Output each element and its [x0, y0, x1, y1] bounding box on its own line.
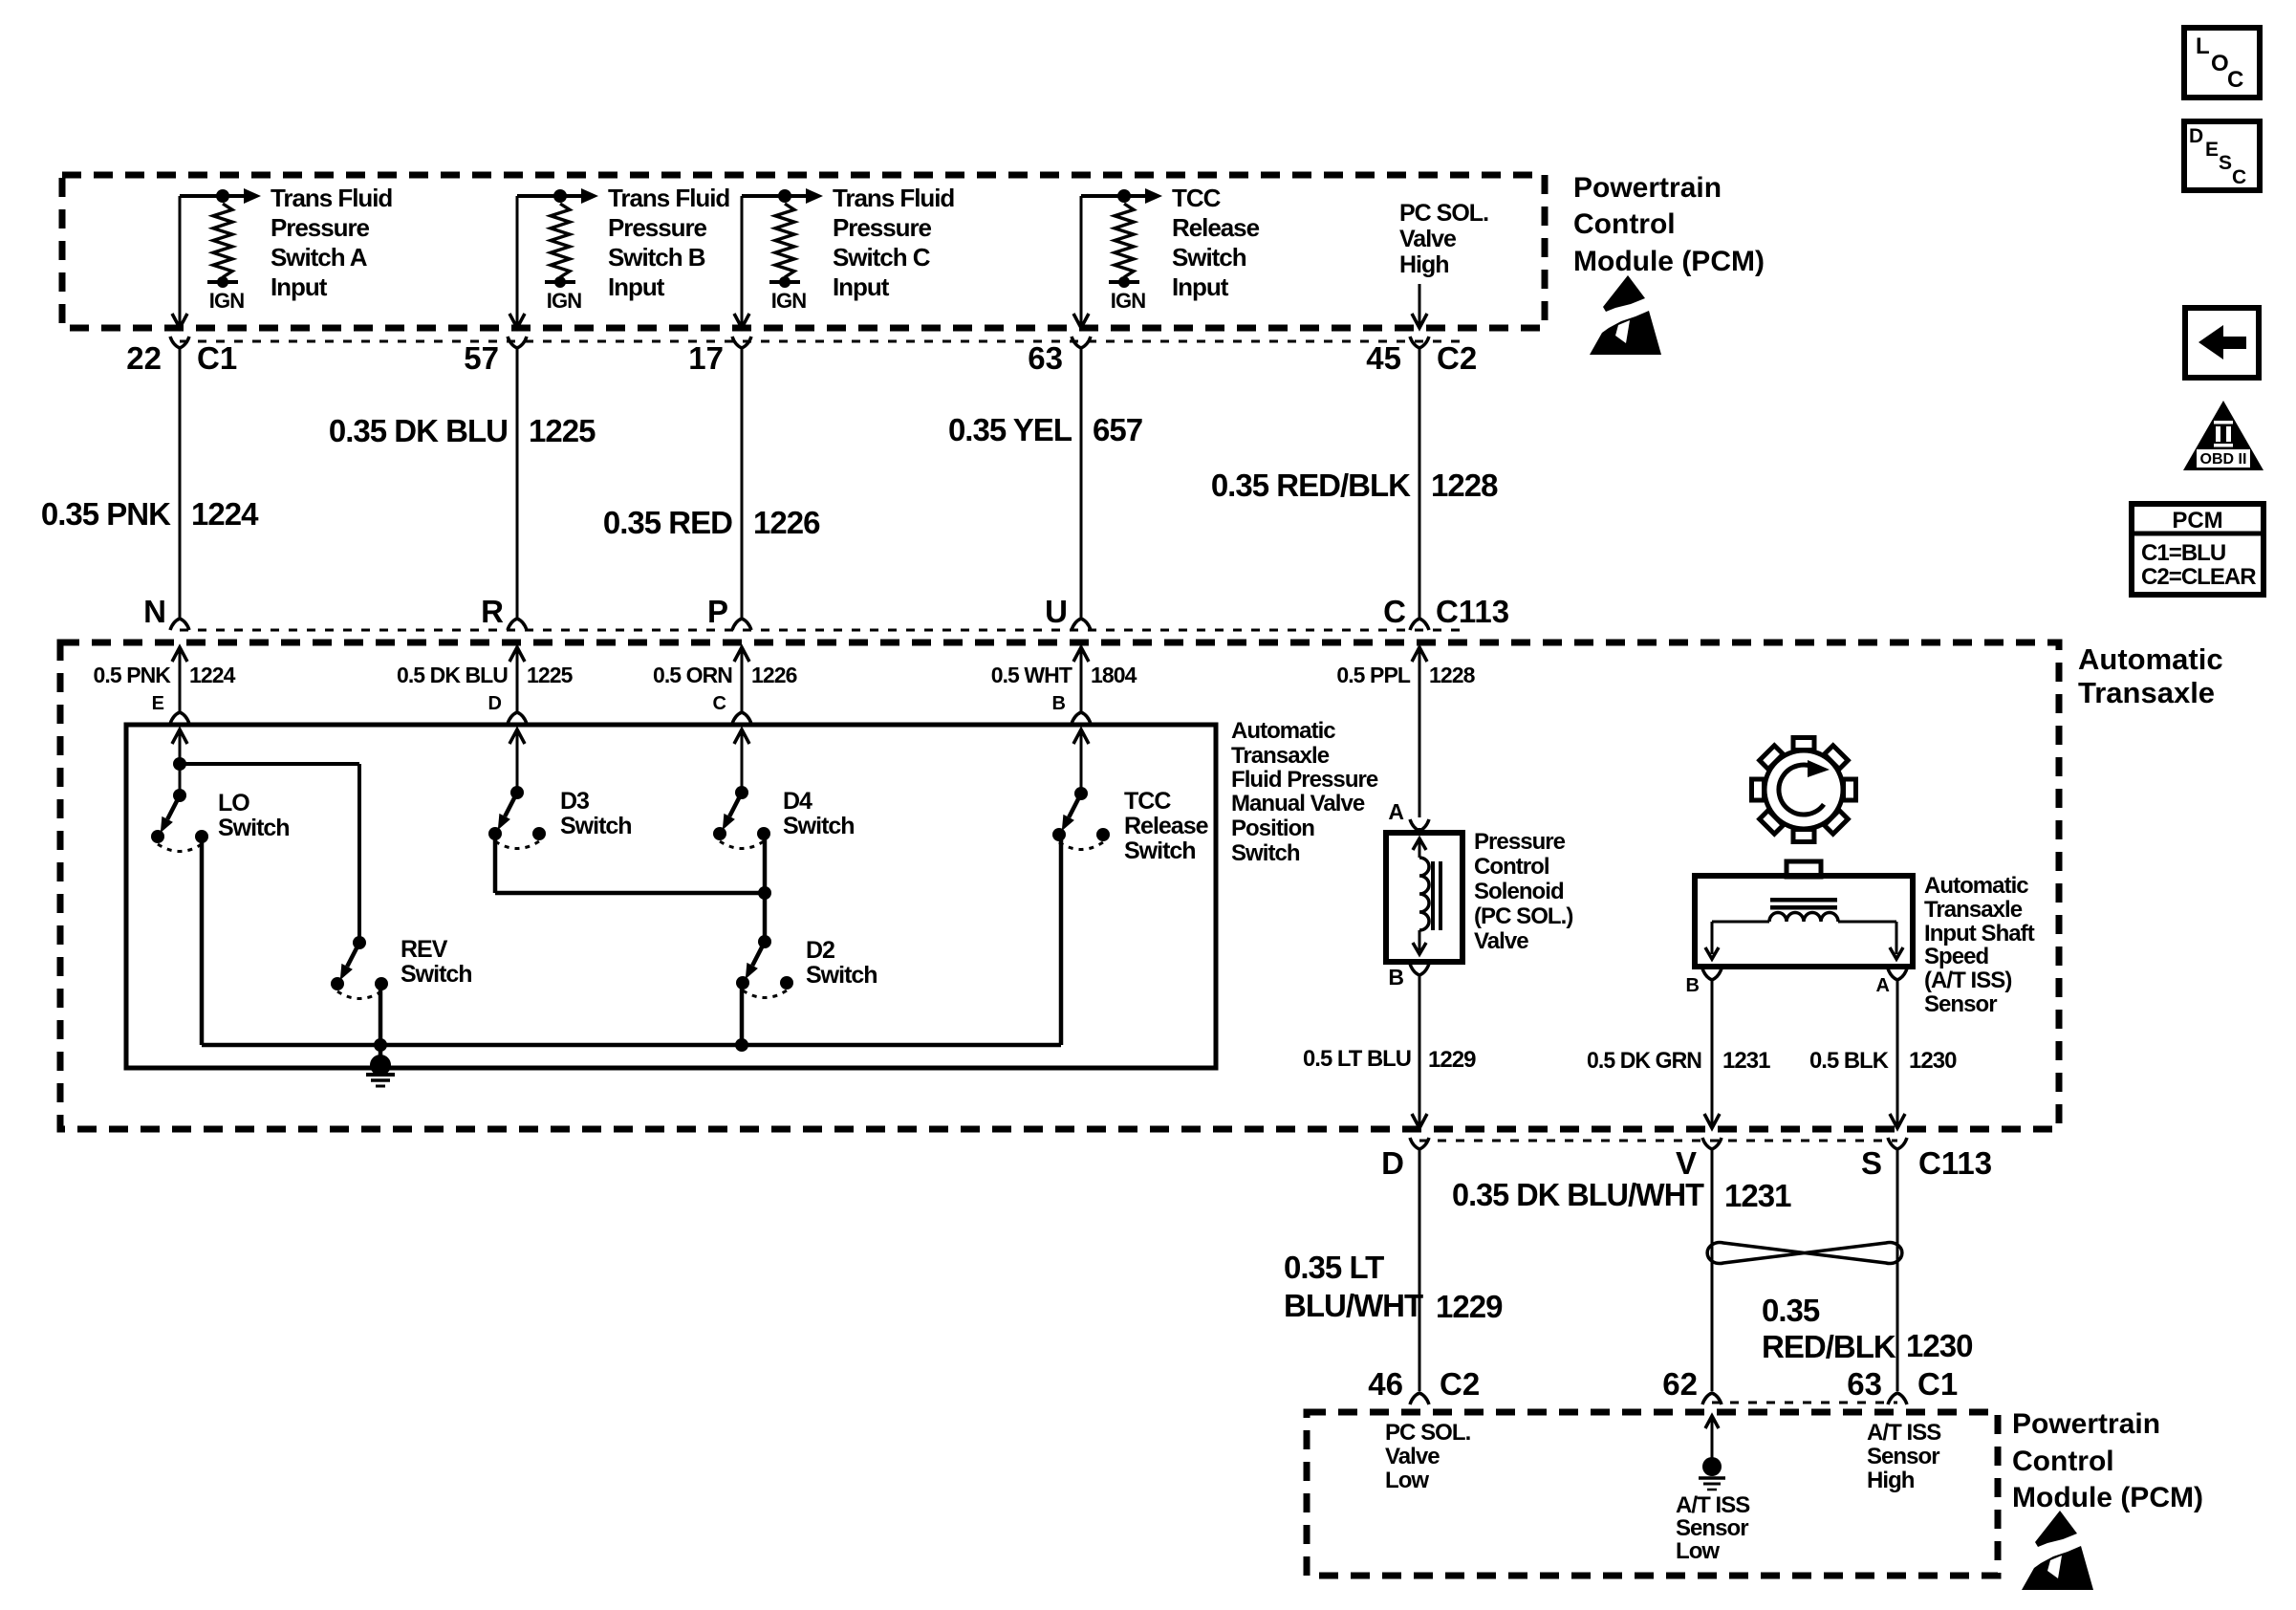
label: 0.35 RED 1226	[603, 505, 820, 540]
svg-text:Module (PCM): Module (PCM)	[1573, 246, 1765, 277]
label: 0.35 DK BLU/WHT 1231	[1452, 1177, 1791, 1213]
pin A (ISS)	[1876, 968, 1907, 996]
label: Trans Fluid Pressure Switch A Input	[271, 184, 392, 301]
connector C113 pin D (lower, fork)	[1381, 1138, 1429, 1181]
svg-text:Fluid Pressure: Fluid Pressure	[1231, 767, 1378, 793]
svg-text:TCC: TCC	[1172, 184, 1222, 212]
icon: LOC box	[2184, 28, 2260, 98]
svg-text:Low: Low	[1676, 1538, 1720, 1564]
svg-text:Transaxle: Transaxle	[1924, 897, 2023, 923]
svg-text:22: 22	[126, 340, 162, 376]
wire: REV right contact to ground	[379, 985, 383, 1065]
wire: PCM internal drop at x=776	[734, 196, 749, 328]
connector pin 22 C1 (PCM side fork)	[126, 337, 237, 376]
svg-text:Input Shaft: Input Shaft	[1924, 921, 2035, 946]
label: 0.35 RED/BLK 1228	[1211, 468, 1498, 503]
svg-text:0.35 LT: 0.35 LT	[1284, 1250, 1384, 1285]
pin C (switch side fork)	[713, 693, 751, 724]
svg-text:C2: C2	[1437, 340, 1477, 376]
svg-text:Control: Control	[2012, 1446, 2114, 1477]
svg-text:C: C	[1383, 594, 1406, 629]
node: junction LO/REV feed	[173, 757, 186, 771]
wire 1228 (0.35 RED/BLK) PCM to C113	[1419, 348, 1421, 619]
wire: LO right contact to bus	[200, 837, 205, 1045]
label: A/T ISS Sensor High	[1867, 1420, 1941, 1493]
svg-text:(PC SOL.): (PC SOL.)	[1474, 903, 1572, 929]
icon: OBD II triangle	[2183, 401, 2264, 470]
wire 1229 (0.35 LT BLU/WHT) to PCM 46	[1419, 1149, 1421, 1391]
svg-text:D: D	[2189, 125, 2203, 147]
svg-text:A/T ISS: A/T ISS	[1867, 1420, 1941, 1446]
switch TCC Release	[1052, 787, 1209, 864]
label: Automatic Transaxle Fluid Pressure Manual Valve Position Switch	[1231, 718, 1378, 866]
svg-text:Release: Release	[1124, 813, 1209, 839]
svg-text:C1: C1	[197, 340, 237, 376]
svg-text:TCC: TCC	[1124, 788, 1171, 815]
svg-text:Switch: Switch	[218, 815, 290, 841]
svg-text:Pressure: Pressure	[833, 213, 932, 242]
svg-text:C: C	[2227, 67, 2243, 93]
wire: PCM internal drop at x=188	[172, 196, 187, 328]
icon: back arrow box	[2185, 308, 2259, 378]
resistor R2 (IGN pull-up for Trans Fluid Switch B)	[517, 189, 581, 313]
label: Powertrain Control Module (PCM) (top right)	[1573, 172, 1765, 277]
svg-text:1229: 1229	[1436, 1289, 1503, 1324]
svg-text:0.5 DK GRN: 0.5 DK GRN	[1587, 1048, 1701, 1074]
svg-text:B: B	[1388, 965, 1404, 990]
svg-text:High: High	[1399, 251, 1449, 278]
resistor R1 (IGN pull-up for Trans Fluid Switch A)	[180, 189, 244, 313]
svg-text:C113: C113	[1918, 1145, 1992, 1181]
svg-text:Low: Low	[1385, 1468, 1429, 1493]
wire: internal stem at x=541	[509, 729, 525, 793]
svg-text:Switch: Switch	[560, 813, 632, 839]
svg-text:REV: REV	[401, 936, 448, 963]
svg-text:1229: 1229	[1428, 1047, 1476, 1073]
switch LO	[151, 789, 290, 852]
connector pin 63 (PCM side fork)	[1028, 337, 1091, 376]
label: TCC Release Switch Input	[1172, 184, 1260, 301]
svg-text:(A/T ISS): (A/T ISS)	[1924, 968, 2011, 993]
resistor R3 (IGN pull-up for Trans Fluid Switch C)	[742, 189, 806, 313]
svg-text:1231: 1231	[1724, 1178, 1791, 1213]
svg-text:IGN: IGN	[547, 289, 581, 313]
connector pin 17 (PCM side fork)	[688, 337, 751, 376]
connector line C113 upper (fine dashed)	[180, 629, 1462, 632]
icon: DESC box	[2184, 121, 2260, 190]
connector C113 pin S (lower, fork)	[1861, 1138, 1907, 1181]
label: 0.5 PNK 1224	[94, 663, 236, 687]
svg-text:Switch: Switch	[401, 961, 472, 988]
wire 1225 (0.35 DK BLU) PCM to C113	[516, 348, 519, 619]
svg-text:S: S	[1861, 1145, 1882, 1181]
svg-text:Switch: Switch	[1231, 840, 1300, 866]
wire 1231 (0.5 DK GRN) ISS B down	[1704, 980, 1720, 1128]
connector pin 63 C1	[1847, 1366, 1958, 1404]
svg-text:Sensor: Sensor	[1924, 991, 1997, 1017]
connector pin 46 C2	[1368, 1366, 1480, 1404]
wire 1226 (0.35 RED) PCM to C113	[741, 348, 744, 619]
ground (A/T ISS sensor low reference)	[1699, 1416, 1725, 1490]
wire 1229 (0.5 LT BLU) PC SOL B down	[1412, 975, 1427, 1128]
svg-text:C1: C1	[1917, 1366, 1958, 1402]
svg-text:High: High	[1867, 1468, 1915, 1493]
svg-text:Valve: Valve	[1385, 1444, 1440, 1469]
label: Powertrain Control Module (PCM) (bottom right)	[2012, 1408, 2203, 1513]
label: 0.5 DK BLU 1225	[397, 663, 574, 687]
label: PC SOL. Valve Low	[1385, 1420, 1471, 1493]
switch D2	[736, 935, 877, 998]
connector pin 45 C2 (PCM side fork)	[1366, 337, 1477, 376]
svg-text:R: R	[481, 594, 504, 629]
svg-text:Input: Input	[608, 272, 665, 301]
svg-text:C: C	[2232, 166, 2246, 188]
svg-text:0.5 PPL: 0.5 PPL	[1336, 663, 1411, 687]
wire 1225 (0.5 DK BLU) transaxle stub	[509, 647, 525, 712]
svg-text:63: 63	[1028, 340, 1063, 376]
connector line C113 lower (fine dashed)	[1419, 1140, 1897, 1142]
svg-text:57: 57	[464, 340, 499, 376]
svg-text:Sensor: Sensor	[1867, 1444, 1939, 1469]
arrow: signal output Trans Fluid Pressure Switch B Input	[560, 188, 598, 204]
svg-text:Trans Fluid: Trans Fluid	[271, 184, 392, 212]
label: 0.5 PPL 1228	[1336, 663, 1475, 687]
label: Trans Fluid Pressure Switch B Input	[608, 184, 729, 301]
svg-text:1224: 1224	[189, 663, 236, 687]
label: 0.35 YEL 657	[948, 412, 1142, 447]
twisted pair symbol (1231/1230)	[1707, 1243, 1902, 1264]
svg-text:PC SOL.: PC SOL.	[1399, 200, 1488, 227]
label: 0.5 ORN 1226	[653, 663, 797, 687]
Pressure Control Solenoid (PC SOL.) Valve	[1386, 833, 1462, 962]
svg-text:1804: 1804	[1091, 663, 1137, 687]
svg-text:0.5 BLK: 0.5 BLK	[1809, 1048, 1890, 1074]
pin B (PC SOL)	[1388, 964, 1429, 990]
wire 1228 (0.5 PPL) transaxle stub	[1412, 647, 1427, 817]
svg-text:1231: 1231	[1722, 1048, 1770, 1074]
svg-text:S: S	[2219, 152, 2232, 174]
svg-text:A: A	[1876, 975, 1890, 996]
pin A (PC SOL)	[1388, 799, 1429, 833]
ESD sensitivity symbol (top)	[1590, 275, 1661, 355]
svg-text:Switch B: Switch B	[608, 243, 705, 272]
svg-text:Transaxle: Transaxle	[1231, 743, 1330, 769]
svg-text:0.5 ORN: 0.5 ORN	[653, 663, 732, 687]
svg-text:Valve: Valve	[1399, 226, 1457, 252]
wire: D4 right contact down to D2	[763, 834, 768, 942]
svg-text:Control: Control	[1573, 208, 1676, 240]
svg-text:0.35 RED: 0.35 RED	[603, 505, 732, 540]
svg-text:657: 657	[1093, 412, 1142, 447]
svg-text:OBD II: OBD II	[2200, 451, 2247, 468]
svg-text:45: 45	[1366, 340, 1401, 376]
svg-text:B: B	[1686, 975, 1700, 996]
svg-text:Module (PCM): Module (PCM)	[2012, 1482, 2203, 1513]
svg-text:Sensor: Sensor	[1676, 1515, 1748, 1541]
svg-text:0.35 PNK: 0.35 PNK	[41, 496, 171, 532]
svg-text:Transaxle: Transaxle	[2078, 676, 2215, 709]
connector pin 57 (PCM side fork)	[464, 337, 527, 376]
wire 1226 (0.5 ORN) transaxle stub	[734, 647, 749, 712]
wire: internal stem at x=188	[172, 729, 187, 795]
svg-text:Switch: Switch	[1172, 243, 1246, 272]
switch D3	[488, 786, 632, 849]
svg-text:1225: 1225	[529, 413, 596, 448]
connector line C1/C2 (fine dashed)	[180, 340, 1462, 343]
label: A/T ISS Sensor Low	[1676, 1492, 1750, 1564]
svg-text:62: 62	[1662, 1366, 1698, 1402]
svg-text:D3: D3	[560, 788, 589, 815]
svg-text:0.35 YEL: 0.35 YEL	[948, 412, 1072, 447]
svg-text:Release: Release	[1172, 213, 1260, 242]
wire: PC SOL valve high internal drop	[1412, 284, 1427, 328]
label: Automatic Transaxle Input Shaft Speed (A/T ISS) Sensor	[1924, 873, 2035, 1017]
label: Automatic Transaxle	[2078, 642, 2223, 709]
svg-text:E: E	[152, 693, 164, 714]
svg-text:Valve: Valve	[1474, 928, 1528, 954]
svg-text:V: V	[1676, 1145, 1697, 1181]
wire: PCM internal drop at x=1131	[1073, 196, 1089, 328]
svg-text:Solenoid: Solenoid	[1474, 879, 1564, 904]
node: D2 junction on bus	[735, 1038, 748, 1052]
PCM module dashed box (top)	[62, 175, 1545, 328]
svg-text:Automatic: Automatic	[1924, 873, 2028, 899]
svg-text:Manual Valve: Manual Valve	[1231, 791, 1365, 816]
svg-text:0.5 DK BLU: 0.5 DK BLU	[397, 663, 508, 687]
label: 0.35 LT BLU/WHT 1229	[1284, 1250, 1503, 1324]
label: Pressure Control Solenoid (PC SOL.) Valve	[1474, 829, 1572, 954]
pin B (switch side fork)	[1052, 693, 1091, 724]
svg-text:Automatic: Automatic	[2078, 642, 2223, 676]
svg-text:A/T ISS: A/T ISS	[1676, 1492, 1750, 1518]
wire 657 (0.35 YEL) PCM to C113	[1080, 348, 1083, 619]
wire: PCM internal drop at x=541	[509, 196, 525, 328]
svg-text:C: C	[713, 693, 726, 714]
svg-text:63: 63	[1847, 1366, 1882, 1402]
legend: PCM connector colors	[2132, 504, 2264, 595]
svg-text:C2: C2	[1440, 1366, 1480, 1402]
svg-text:Switch: Switch	[1124, 838, 1196, 864]
svg-text:Control: Control	[1474, 854, 1549, 880]
svg-text:Automatic: Automatic	[1231, 718, 1335, 744]
wire 1804 (0.5 WHT) transaxle stub	[1073, 647, 1089, 712]
svg-text:1230: 1230	[1909, 1048, 1957, 1074]
svg-text:A: A	[1388, 799, 1404, 824]
ESD sensitivity symbol (bottom)	[2022, 1511, 2093, 1590]
svg-text:0.5 PNK: 0.5 PNK	[94, 663, 172, 687]
svg-text:17: 17	[688, 340, 724, 376]
label: 0.35 PNK 1224	[41, 496, 259, 532]
label: 0.5 BLK 1230	[1809, 1048, 1957, 1074]
connector C113 pin U (harness side fork)	[1045, 594, 1091, 630]
svg-text:C1=BLU: C1=BLU	[2141, 540, 2225, 566]
svg-text:0.5 WHT: 0.5 WHT	[991, 663, 1072, 687]
wire: internal stem at x=1131	[1073, 729, 1089, 794]
node: D3-D4 junction	[758, 886, 771, 900]
svg-text:Powertrain: Powertrain	[2012, 1408, 2160, 1440]
svg-text:Input: Input	[833, 272, 890, 301]
svg-text:1228: 1228	[1429, 663, 1476, 687]
svg-text:PCM: PCM	[2172, 508, 2222, 533]
svg-text:RED/BLK: RED/BLK	[1762, 1329, 1896, 1364]
svg-text:1226: 1226	[753, 505, 820, 540]
svg-text:C113: C113	[1436, 594, 1509, 629]
svg-text:46: 46	[1368, 1366, 1403, 1402]
connector C113 pin P (harness side fork)	[707, 594, 751, 630]
svg-text:C2=CLEAR: C2=CLEAR	[2141, 564, 2256, 590]
svg-text:0.35 RED/BLK: 0.35 RED/BLK	[1211, 468, 1411, 503]
svg-text:Trans Fluid: Trans Fluid	[608, 184, 729, 212]
svg-text:1224: 1224	[191, 496, 259, 532]
wire: TCC left contact drop	[1059, 834, 1064, 1045]
A/T ISS sensor box	[1695, 861, 1913, 967]
pin E (switch side fork)	[152, 693, 189, 724]
label: Trans Fluid Pressure Switch C Input	[833, 184, 954, 301]
svg-text:D2: D2	[806, 937, 834, 964]
connector pin 62	[1662, 1366, 1722, 1404]
svg-text:LO: LO	[218, 790, 249, 816]
wire 1224 (0.5 PNK) transaxle stub	[172, 647, 187, 712]
connector C113 pin N (harness side fork)	[143, 594, 189, 630]
svg-text:1226: 1226	[751, 663, 797, 687]
svg-text:IGN: IGN	[209, 289, 244, 313]
svg-text:IGN: IGN	[1111, 289, 1145, 313]
connector C113 pin R (harness side fork)	[481, 594, 527, 630]
svg-text:Input: Input	[271, 272, 328, 301]
svg-text:1230: 1230	[1906, 1328, 1972, 1363]
PCM module dashed box (bottom)	[1307, 1412, 1998, 1576]
switch D4	[713, 786, 855, 849]
svg-text:IGN: IGN	[771, 289, 806, 313]
svg-text:0.35 DK BLU/WHT: 0.35 DK BLU/WHT	[1452, 1177, 1704, 1212]
svg-text:Input: Input	[1172, 272, 1229, 301]
connector line C1 (fine dashed, bottom)	[1712, 1402, 1897, 1404]
wire 1230 (0.35 RED/BLK) to PCM 63	[1896, 1149, 1899, 1391]
svg-text:1225: 1225	[527, 663, 574, 687]
svg-text:BLU/WHT: BLU/WHT	[1284, 1288, 1423, 1323]
ground (switch assembly common)	[366, 1055, 395, 1086]
label: 0.5 WHT 1804	[991, 663, 1137, 687]
svg-text:0.35 DK BLU: 0.35 DK BLU	[329, 413, 508, 448]
wire 1224 (0.35 PNK) PCM to C113	[179, 348, 182, 619]
svg-text:Switch C: Switch C	[833, 243, 931, 272]
arrow: signal output Trans Fluid Pressure Switch A Input	[223, 188, 261, 204]
svg-text:D: D	[1381, 1145, 1404, 1181]
svg-text:Switch: Switch	[783, 813, 855, 839]
wire 1230 (0.5 BLK) ISS A down	[1890, 980, 1905, 1128]
label: 0.35 DK BLU 1225	[329, 413, 596, 448]
resistor R4 (IGN pull-up for TCC Switch)	[1081, 189, 1145, 313]
wire: internal stem at x=776	[734, 729, 749, 793]
wire: to REV switch	[180, 762, 359, 766]
pin D (switch side fork)	[488, 693, 527, 724]
svg-text:P: P	[707, 594, 728, 629]
wire: D3 left contact to D4/D2 line	[493, 835, 498, 893]
arrow: signal output Trans Fluid Pressure Switch C Input	[785, 188, 823, 204]
svg-text:D: D	[488, 693, 502, 714]
connector C113 pin V (lower, fork)	[1676, 1138, 1722, 1181]
svg-text:N: N	[143, 594, 166, 629]
arrow: signal output TCC Release Switch Input	[1124, 188, 1162, 204]
connector C113 pin C (harness side fork)	[1383, 594, 1509, 630]
svg-text:D4: D4	[783, 788, 812, 815]
Automatic Transaxle Fluid Pressure Manual Valve Position Switch box	[126, 725, 1216, 1068]
pin B (ISS)	[1686, 968, 1722, 996]
svg-text:Pressure: Pressure	[1474, 829, 1566, 855]
node: REV junction on bus	[374, 1038, 387, 1052]
switch REV	[331, 936, 472, 999]
svg-text:Position: Position	[1231, 816, 1314, 841]
svg-text:0.35: 0.35	[1762, 1293, 1820, 1328]
svg-text:Speed: Speed	[1924, 944, 1989, 969]
svg-text:U: U	[1045, 594, 1068, 629]
svg-text:Pressure: Pressure	[271, 213, 370, 242]
Automatic Transaxle dashed box	[60, 642, 2059, 1129]
label: PC SOL. Valve High	[1399, 200, 1488, 278]
svg-text:E: E	[2205, 139, 2219, 161]
label: 0.5 DK GRN 1231	[1587, 1048, 1770, 1074]
label: 0.35 RED/BLK 1230	[1762, 1293, 1972, 1364]
svg-text:L: L	[2196, 33, 2210, 59]
svg-text:Trans Fluid: Trans Fluid	[833, 184, 954, 212]
svg-text:B: B	[1052, 693, 1066, 714]
svg-text:PC SOL.: PC SOL.	[1385, 1420, 1471, 1446]
svg-text:Switch A: Switch A	[271, 243, 368, 272]
svg-text:1228: 1228	[1431, 468, 1498, 503]
gear icon (input shaft)	[1752, 738, 1856, 842]
svg-text:Pressure: Pressure	[608, 213, 707, 242]
svg-text:Powertrain: Powertrain	[1573, 172, 1722, 204]
svg-text:0.5 LT BLU: 0.5 LT BLU	[1303, 1046, 1411, 1072]
svg-text:Switch: Switch	[806, 962, 877, 989]
label: 0.5 LT BLU 1229	[1303, 1046, 1476, 1073]
wire: D2 left contact drop	[740, 983, 745, 1045]
wire 1231 (0.35 DK BLU/WHT) to PCM 62	[1711, 1149, 1714, 1391]
svg-text:O: O	[2211, 51, 2229, 76]
